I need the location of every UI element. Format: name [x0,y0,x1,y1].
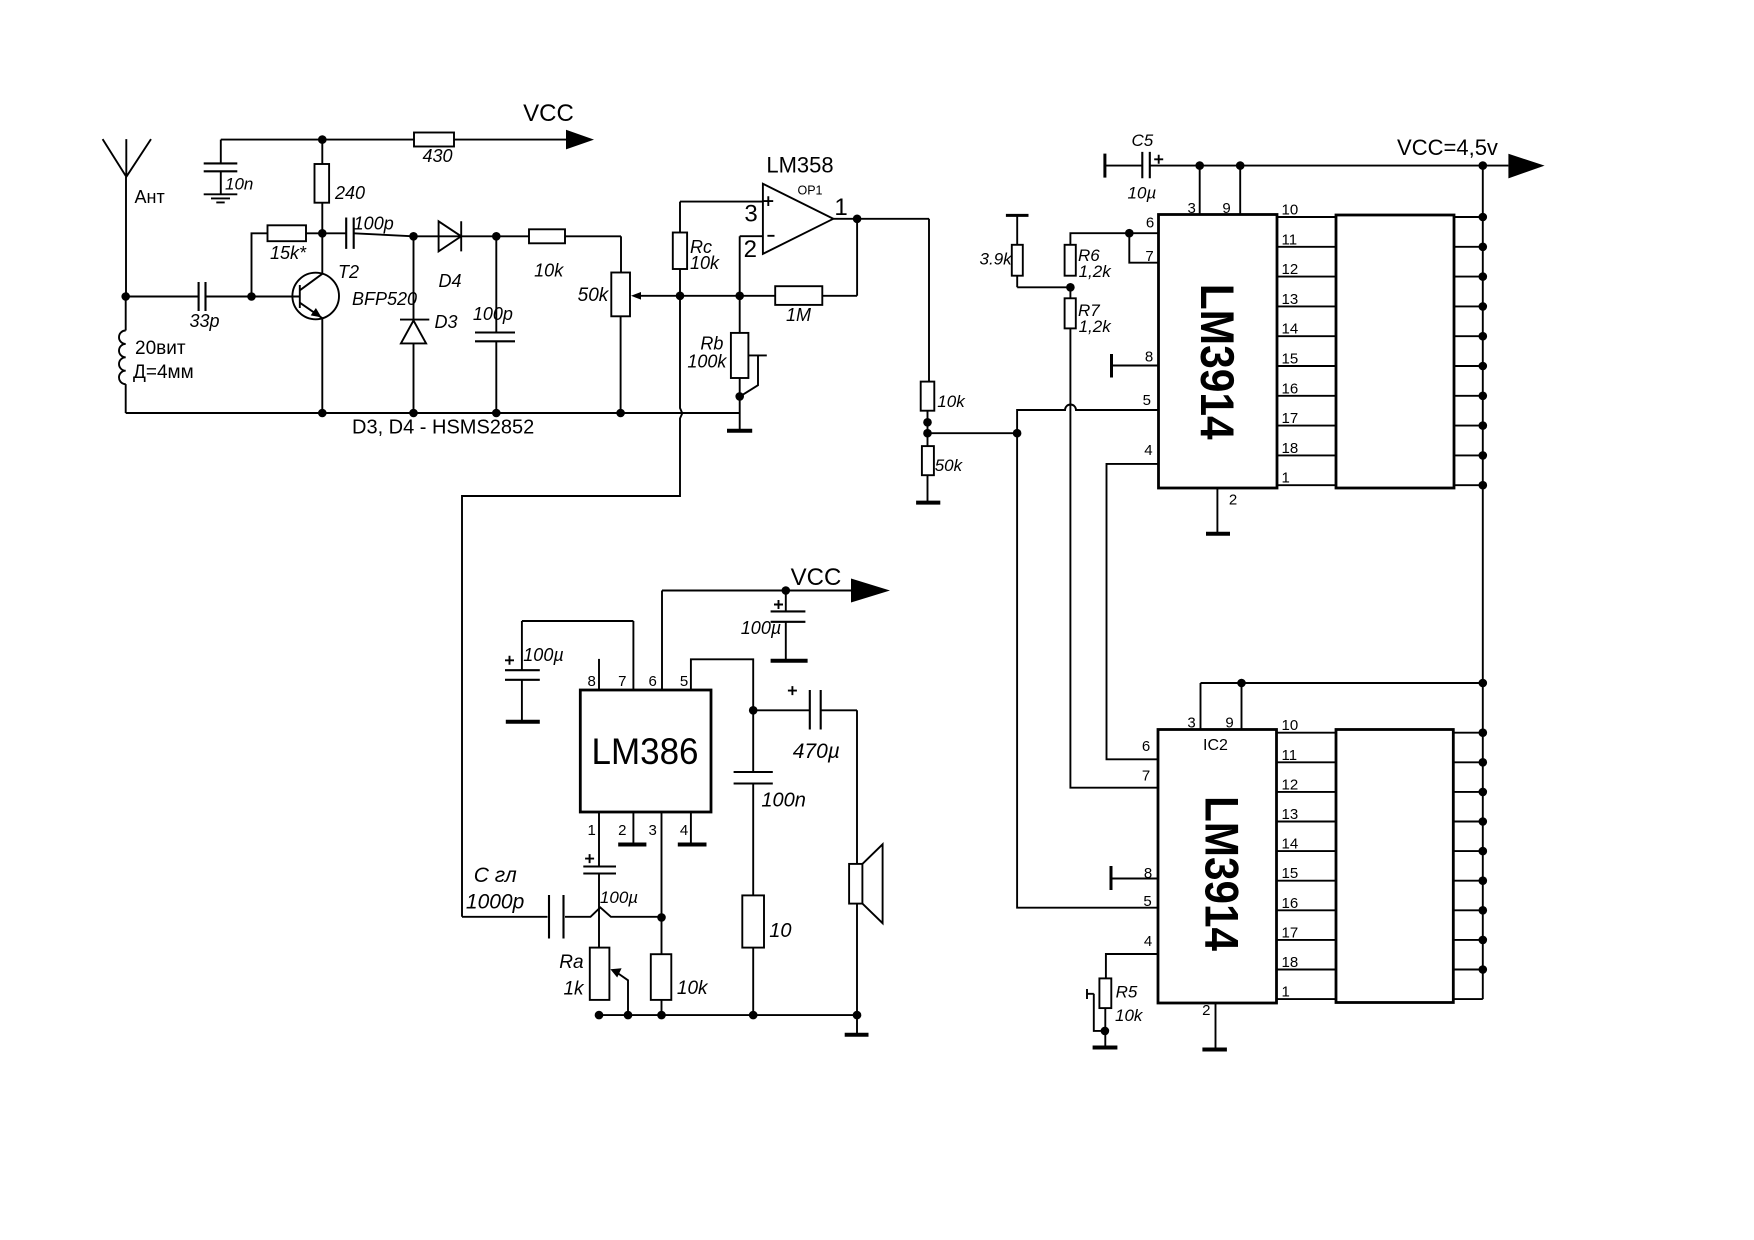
resistor R7 1,2k [1065,287,1113,336]
terminal bar above 3.9k [1006,214,1029,217]
pin 8 label IC1 [1145,349,1153,366]
svg-text:LM358: LM358 [766,153,833,178]
node emitter ground [318,409,327,418]
wire pin 3 net [661,812,663,954]
node pin5/470µ junction [749,706,758,715]
wire pin 6 riser [661,591,663,691]
node Rc/wiper junction [676,292,685,301]
wire pin 4 IC1 to IC2 pin6 [1107,464,1159,759]
ground pin 4 LM386 [678,812,707,845]
resistor 10 [742,895,791,1015]
svg-text:1k: 1k [563,979,585,1000]
svg-text:Rb: Rb [700,334,723,354]
svg-text:17: 17 [1282,924,1299,941]
svg-text:12: 12 [1282,261,1299,278]
wire bottom rail LM386 [599,1014,858,1016]
svg-text:16: 16 [1282,895,1299,912]
svg-text:15: 15 [1282,351,1299,368]
wiper arrow 50k [631,292,680,300]
wire to VCC arrow [454,139,566,141]
svg-text:6: 6 [649,673,657,690]
power VCC arrow LM386 [791,564,890,603]
node feedback junction [735,292,744,301]
pin 4 label IC2 [1144,933,1152,950]
capacitor 100µ at VCC [741,591,806,660]
node Ra bottom [595,1011,604,1020]
wiper Rb [740,355,767,396]
resistor Rc 10k [673,233,720,274]
IC U2 LM3914 [1159,215,1278,489]
svg-text:Ra: Ra [559,952,583,973]
svg-text:18: 18 [1282,954,1299,971]
trimmer R5 10k [1099,978,1144,1025]
pin 5 label IC2 [1143,893,1151,910]
svg-text:1: 1 [834,194,847,221]
wires LED1 to rail [1454,217,1483,485]
svg-text:1: 1 [1282,984,1290,1001]
node tap riser junction [1013,429,1022,438]
speaker LS [849,844,883,1015]
svg-text:1M: 1M [786,305,811,325]
pin labels 10-18,1 IC1 [1282,202,1299,487]
svg-text:6: 6 [1142,738,1150,755]
wire pin 5 path [691,659,753,710]
capacitor С гл 1000p with hop [462,864,662,939]
resistor 10k series [496,229,621,280]
wire pin3 pin9 risers IC1 [1200,166,1241,215]
wire pin 6 net IC1 [1070,233,1158,263]
wire pot bottom [620,316,622,413]
pin 7 label IC1 [1145,248,1153,265]
node speaker bottom [853,1011,862,1020]
resistor 10k divider [921,382,966,411]
wire antenna lead [125,177,127,297]
svg-text:16: 16 [1282,380,1299,397]
capacitor 100n [734,710,806,895]
resistor 3.9k [980,215,1071,287]
svg-text:OP1: OP1 [797,184,822,198]
svg-text:4: 4 [680,822,688,839]
wire 470µ to speaker [856,710,858,864]
pin 3 label [744,201,757,228]
trimmer Rb 100k [687,296,748,378]
svg-text:IC2: IC2 [1203,737,1228,754]
potentiometer Ra 1k [559,948,609,1000]
svg-text:7: 7 [1145,248,1153,265]
wire pin 8 IC2 [1111,878,1158,880]
svg-text:5: 5 [680,673,688,690]
svg-text:VCC: VCC [523,100,574,127]
wiper R5 [1087,989,1105,1031]
resistor 430 [414,133,454,167]
svg-text:T2: T2 [338,262,359,282]
node 10k bottom [657,1011,666,1020]
svg-text:3: 3 [744,201,757,228]
svg-text:C5: C5 [1132,131,1154,150]
resistor 1M [775,286,822,325]
svg-text:240: 240 [334,183,365,203]
pin 4 label IC1 [1144,442,1152,459]
capacitor 470µ [753,686,857,763]
svg-text:7: 7 [618,673,626,690]
svg-text:14: 14 [1282,321,1299,338]
terminal bar pin8 IC2 [1110,866,1113,890]
transistor T2 BFP520 [292,262,417,319]
svg-text:20вит: 20вит [135,338,186,359]
resistor 50k divider [922,446,964,475]
node rail a [1195,161,1204,170]
power VCC=4,5v arrow [1397,135,1545,178]
svg-text:R5: R5 [1116,983,1138,1002]
pin 8 label IC2 [1144,865,1152,882]
wire top rail [221,139,414,141]
ground R5 [1093,1008,1118,1047]
svg-text:Ант: Ант [135,187,165,207]
svg-text:17: 17 [1282,410,1299,427]
ground pin 2 LM386 [618,812,646,845]
node output junction [853,215,862,224]
node R5 wiper tie [1101,1027,1110,1036]
svg-text:100p: 100p [354,214,394,234]
svg-text:1,2k: 1,2k [1079,317,1113,336]
ground 100µ bypass [506,720,540,724]
svg-text:15: 15 [1282,865,1299,882]
svg-text:10k: 10k [937,392,966,411]
wire RF ground rail [126,412,740,414]
wire detector net [322,233,496,236]
svg-text:D3, D4 - HSMS2852: D3, D4 - HSMS2852 [352,417,534,439]
capacitor 100µ pin1 [583,812,638,948]
svg-text:VCC=4,5v: VCC=4,5v [1397,135,1498,160]
wire divider mid [927,411,929,446]
svg-text:12: 12 [1282,776,1299,793]
svg-text:8: 8 [1144,865,1152,882]
node Rb wiper tie [735,392,744,401]
wire output to divider [928,219,930,382]
node pin9 tie IC2 [1237,679,1246,688]
svg-text:10k: 10k [534,261,564,281]
svg-text:D3: D3 [434,312,457,332]
svg-text:VCC: VCC [791,564,842,591]
pin labels top LM386 [588,673,689,690]
svg-text:8: 8 [588,673,596,690]
wire audio tap with hop [462,296,682,917]
wire base to transistor [252,296,300,298]
capacitor 100p coupling [346,214,394,249]
svg-text:100µ: 100µ [741,618,781,638]
svg-text:4: 4 [1144,933,1152,950]
ground pin 2 IC1 [1206,488,1237,534]
wire pin 4 IC2 to R5 [1106,954,1158,978]
node R6/R7 junction [1066,283,1075,292]
pin 9 label IC1 [1222,200,1230,217]
wire base net left [126,296,252,298]
svg-text:15k*: 15k* [270,243,307,263]
node D3 junction [409,232,418,241]
svg-text:LM3914: LM3914 [1196,796,1249,951]
svg-text:2: 2 [1229,492,1237,509]
svg-text:С гл: С гл [474,864,517,887]
resistor 15k* [268,225,308,263]
svg-text:13: 13 [1282,291,1299,308]
svg-text:3: 3 [649,822,657,839]
LED bar display 2 [1336,730,1453,1003]
wire Rc bottom [679,269,681,296]
capacitor C5 10µ [1105,131,1200,203]
power VCC arrow top-left [523,100,594,149]
capacitor 10n [204,140,254,195]
nodes LED2 rail [1479,728,1488,973]
svg-text:470µ: 470µ [793,740,840,763]
wire pin 7 top [522,621,634,690]
LED bar display 1 [1336,215,1454,488]
svg-text:2: 2 [744,236,757,263]
node rail b [1236,161,1245,170]
wire pin 8 IC1 [1112,365,1159,367]
wire pin 3 input [680,202,763,233]
svg-text:1000p: 1000p [466,891,524,914]
pin 2 label [744,236,757,263]
svg-text:1: 1 [1282,470,1290,487]
wire Rb bottom [739,378,741,431]
wire divider tap [928,432,1018,434]
capacitor 100µ bypass [505,621,564,720]
svg-text:LM386: LM386 [592,731,699,772]
svg-text:10µ: 10µ [1128,184,1157,203]
wire pin 8 stub [598,659,600,690]
wire op-amp output [833,218,929,220]
svg-text:5: 5 [1143,893,1151,910]
node pin6/7 tie IC1 [1125,229,1134,238]
IC IC2 LM3914 [1158,730,1277,1004]
ground pin 2 IC2 [1202,1002,1227,1050]
wire VCC rail vertical [1482,166,1484,1000]
wires IC1 right pins [1277,217,1336,485]
ground divider [916,475,940,502]
IC U3 LM386 [580,690,711,812]
wire emitter [321,318,323,413]
node top rail / 240 [318,135,327,144]
node D3 ground [409,409,418,418]
svg-text:10k: 10k [1115,1006,1144,1025]
terminal C5 input bar [1103,154,1106,178]
svg-text:2: 2 [618,822,626,839]
nodes LED1 rail [1479,213,1488,490]
svg-text:11: 11 [1282,747,1298,764]
svg-text:14: 14 [1282,836,1299,853]
pin 7 label IC2 [1142,767,1150,784]
ground bottom rail [845,1015,869,1035]
wire 15k left riser [252,233,268,296]
node base/15k junction [247,292,256,301]
resistor 10k pin3 [651,954,709,1015]
node Ra wiper bottom [624,1011,633,1020]
svg-text:6: 6 [1146,214,1154,231]
terminal bar pin8 IC1 [1110,354,1113,378]
node rail tie IC2 [1479,679,1488,688]
pin 3 label IC1 [1188,200,1196,217]
wire IC2 pin3/pin9 top net [1201,683,1483,730]
svg-text:100k: 100k [687,352,727,372]
node antenna/coil/base junction [121,292,130,301]
node pin3/Cгл junction [657,913,666,922]
node 100p2 junction [492,232,501,241]
svg-text:13: 13 [1282,806,1299,823]
antenna Ант [103,139,165,207]
svg-text:1,2k: 1,2k [1079,262,1113,281]
svg-text:100n: 100n [761,790,806,812]
svg-text:100µ: 100µ [600,888,638,907]
svg-text:430: 430 [422,146,452,166]
wire feedback [680,219,857,296]
svg-text:5: 5 [1143,392,1151,409]
svg-text:7: 7 [1142,767,1150,784]
svg-text:3.9k: 3.9k [980,250,1014,269]
svg-text:8: 8 [1145,349,1153,366]
wires IC2 right pins [1277,733,1337,999]
ground 100µ VCC [771,659,808,663]
wiper arrow Ra [610,968,628,1015]
node pot ground [616,409,625,418]
op-amp U1 LM358 [763,153,834,254]
svg-text:100p: 100p [473,304,513,324]
ground earth under 10n [204,194,238,202]
label D3 D4 type [352,417,534,439]
pin 6 label IC2 [1142,738,1150,755]
svg-text:10: 10 [1282,202,1299,219]
svg-text:10k: 10k [677,978,709,999]
pin 3 label IC2 [1187,714,1195,731]
svg-text:50k: 50k [935,456,964,475]
potentiometer 50k [578,273,630,317]
svg-text:10: 10 [769,920,791,942]
wire R7 to IC2 pin7 [1070,328,1158,787]
capacitor 100p filter [473,236,515,413]
svg-text:D4: D4 [438,271,461,291]
svg-text:4: 4 [1144,442,1152,459]
wire LM386 VCC [662,590,851,592]
capacitor 33p [189,282,219,331]
svg-text:2: 2 [1202,1002,1210,1019]
node collector junction [318,229,327,238]
svg-text:10: 10 [1282,717,1299,734]
pin 5 label IC1 [1143,392,1151,409]
svg-text:1: 1 [588,822,596,839]
pin 9 label IC2 [1225,714,1233,731]
pin labels bottom LM386 [588,822,689,839]
wire collector [321,233,323,273]
resistor 240 [315,140,366,234]
node rail c [1479,161,1488,170]
svg-text:100µ: 100µ [523,645,563,665]
svg-text:33p: 33p [189,311,219,331]
wire VCC rail top [1200,165,1483,167]
ground Rb [727,429,752,433]
svg-text:BFP520: BFP520 [352,289,417,309]
svg-text:Д=4мм: Д=4мм [133,362,194,383]
node 100p ground [492,409,501,418]
wires LED2 to rail [1453,733,1483,999]
node VCC cap tie [782,586,791,595]
wire tap riser to IC2 pin5 [1017,433,1158,908]
svg-text:10n: 10n [225,175,253,194]
svg-text:LM3914: LM3914 [1191,284,1244,440]
node divider tap b [923,429,932,438]
resistor R6 1,2k [1065,245,1113,281]
wire 15k right [306,232,322,234]
wire pin 5 IC1 with hop [1017,405,1158,434]
svg-text:10k: 10k [690,253,720,273]
svg-text:50k: 50k [578,285,610,306]
svg-text:18: 18 [1282,440,1299,457]
pin 6 label IC1 [1146,214,1154,231]
node divider tap a [923,418,932,427]
inductor 20вит Д=4мм [119,297,194,414]
pin 1 label [834,194,847,221]
wire pin 2 input [740,236,763,296]
diode D4 [438,221,461,291]
svg-text:11: 11 [1282,231,1298,248]
wire down to pot [620,236,622,272]
node 10 bottom [749,1011,758,1020]
pin labels 10-18,1 IC2 [1282,717,1299,1000]
diode D3 [400,236,458,413]
